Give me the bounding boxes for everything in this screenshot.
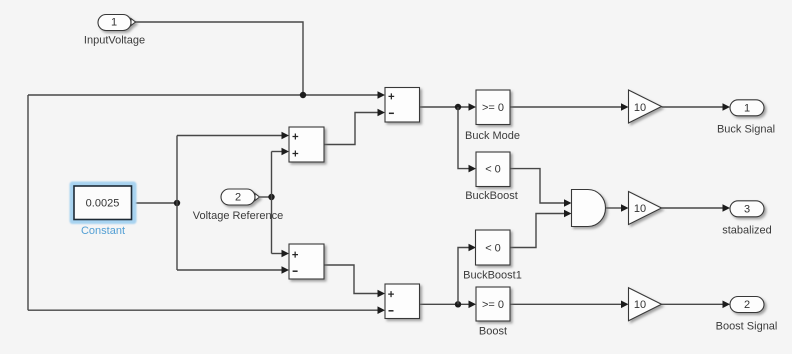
label Buck Signal (717, 124, 775, 136)
wire Gain3 output to Outport2 (662, 301, 731, 309)
junction Sum4 output net (455, 301, 461, 307)
svg-text:Boost Signal: Boost Signal (716, 320, 778, 332)
svg-text:Buck Mode: Buck Mode (465, 130, 520, 142)
junction VoltageReference net (268, 194, 274, 200)
wire bottom rail y=310.5 to Sum4 minus input (28, 306, 385, 314)
constant C 0.0025 selection glow (70, 182, 137, 225)
sum U2 (upper middle, plus plus) (289, 127, 324, 162)
wire BuckBoost1 output to AND input 2 (510, 210, 572, 248)
svg-text:Boost: Boost (479, 326, 507, 338)
label BuckBoost1 (463, 270, 522, 282)
wire horizontal rail y=95 to Sum1 plus input (28, 91, 385, 99)
wire Sum1 output to BuckMode input (420, 103, 477, 111)
wire BuckMode output to Gain1 input (510, 103, 629, 111)
constant block 0.0025 (74, 186, 132, 220)
wire Sum4 output to Boost input (420, 301, 477, 309)
svg-text:10: 10 (634, 102, 646, 114)
inport 2 Voltage Reference (221, 189, 260, 205)
wire Gain1 output to Outport1 (662, 103, 731, 111)
compare block BuckBoost (< 0) (476, 152, 510, 187)
svg-text:2: 2 (744, 299, 750, 311)
wire VoltageReference output (260, 196, 272, 198)
svg-text:BuckBoost: BuckBoost (465, 190, 518, 202)
wire BuckBoost output to AND input 1 (510, 169, 572, 207)
gain G3 (10) (629, 288, 662, 321)
compare block Buck Mode (>= 0) (476, 90, 510, 125)
AND gate U5 (572, 190, 606, 227)
svg-text:< 0: < 0 (485, 243, 501, 255)
wire VoltageReference net vertical x=272 (271, 152, 273, 254)
compare block BuckBoost1 (< 0) (476, 230, 511, 265)
svg-text:< 0: < 0 (485, 164, 501, 176)
compare block Boost (>= 0) (476, 287, 510, 321)
wire Sum2 output to Sum1 minus input (324, 109, 385, 145)
sum U4 (bottom, plus minus) (385, 284, 420, 319)
wire Boost output to Gain3 input (510, 301, 629, 309)
wire Constant net to Sum3 input 2 (177, 266, 289, 274)
svg-text:BuckBoost1: BuckBoost1 (463, 270, 522, 282)
label Voltage Reference (193, 210, 284, 222)
label stabalized (722, 225, 772, 237)
svg-text:>= 0: >= 0 (482, 102, 504, 114)
svg-text:0.0025: 0.0025 (86, 198, 120, 210)
svg-text:1: 1 (111, 16, 117, 28)
wire net InputVoltage: port1 to corner to junction (135, 22, 304, 95)
wire AND output to Gain2 input (606, 204, 629, 212)
label InputVoltage (84, 35, 145, 47)
svg-text:10: 10 (634, 299, 646, 311)
wire Constant output (132, 202, 177, 204)
outport 3 stabalized (730, 201, 764, 217)
sum U1 (top, plus minus) (385, 88, 420, 123)
wire Sum1 net to BuckBoost input (458, 107, 476, 172)
gain G2 (10) (629, 192, 662, 225)
sum U3 (lower middle, plus minus) (289, 244, 324, 279)
junction port1 rail (300, 92, 306, 98)
svg-text:Voltage Reference: Voltage Reference (193, 210, 284, 222)
gain G1 (10) (629, 90, 662, 123)
svg-text:InputVoltage: InputVoltage (84, 35, 145, 47)
wire Constant net vertical x=177 (176, 136, 178, 271)
outport 1 Buck Signal (730, 100, 764, 116)
junction Constant net (174, 200, 180, 206)
label Buck Mode (465, 130, 520, 142)
label Boost (479, 326, 507, 338)
svg-text:1: 1 (744, 102, 750, 114)
svg-text:Constant: Constant (81, 225, 125, 237)
svg-text:stabalized: stabalized (722, 225, 772, 237)
label Constant (81, 225, 125, 237)
svg-text:3: 3 (744, 203, 750, 215)
label BuckBoost (465, 190, 518, 202)
wire Gain2 output to Outport3 (662, 204, 731, 212)
wire Sum4 net to BuckBoost1 input (458, 244, 476, 305)
svg-text:2: 2 (235, 192, 241, 204)
outport 2 Boost Signal (730, 297, 764, 313)
inport 1 InputVoltage (98, 15, 136, 31)
junction Sum1 output net (455, 104, 461, 110)
wire left vertical rail x=28 (27, 95, 29, 310)
wire Constant net to Sum2 input 1 (177, 132, 289, 140)
svg-text:>= 0: >= 0 (482, 299, 504, 311)
svg-text:10: 10 (634, 203, 646, 215)
wire Sum3 output to Sum4 plus input (324, 265, 385, 297)
wire VoltageReference net to Sum3 input 1 (272, 250, 290, 258)
label Boost Signal (716, 320, 778, 332)
svg-text:Buck Signal: Buck Signal (717, 124, 775, 136)
wire VoltageReference net to Sum2 input 2 (272, 148, 290, 156)
